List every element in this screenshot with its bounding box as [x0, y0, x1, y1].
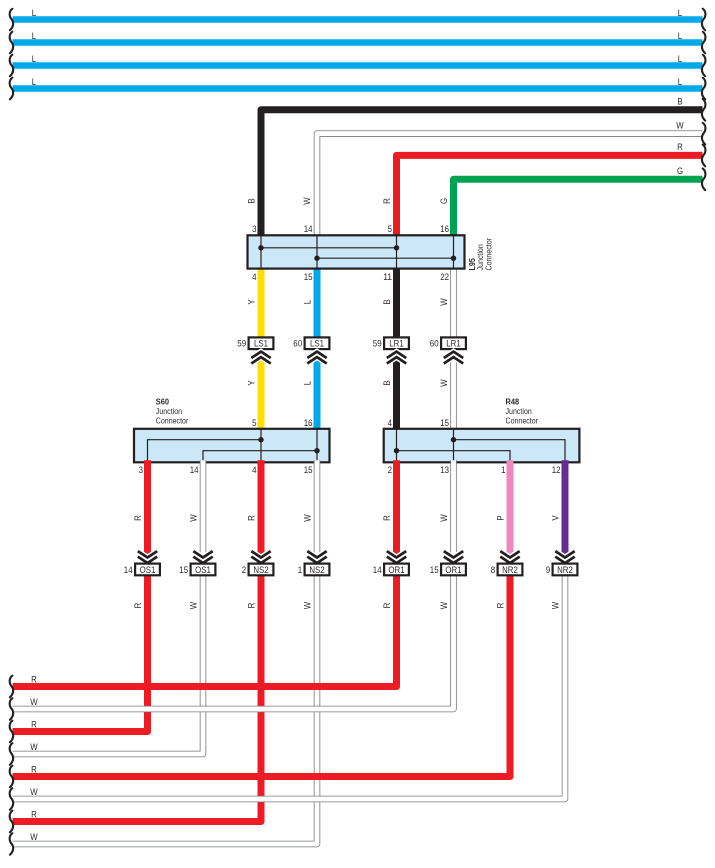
svg-text:1: 1: [501, 465, 505, 476]
down arrows above 2 NS2: [251, 551, 270, 563]
connector LS1 pin 59 label box: [249, 337, 274, 349]
svg-text:NR2: NR2: [557, 565, 573, 576]
svg-text:W: W: [439, 601, 450, 609]
wire L4 (blue horizontal): [13, 85, 703, 92]
svg-text:L: L: [678, 54, 683, 65]
svg-text:L: L: [32, 54, 37, 65]
up arrows below 59 LR1: [387, 352, 406, 364]
wire B (black) from right edge down to L95 pin 3: [261, 110, 703, 238]
svg-text:W: W: [188, 601, 199, 609]
svg-text:59: 59: [373, 339, 382, 350]
svg-text:L: L: [678, 77, 683, 88]
junction connector R48 box: [384, 429, 580, 463]
svg-text:3: 3: [252, 224, 256, 235]
svg-text:R: R: [133, 515, 144, 521]
connector NR2 pin 8 label box: [498, 564, 523, 576]
break symbol left of L4: [10, 78, 14, 100]
S60 internal path pin 16-15: [316, 429, 318, 463]
wire R from x=510 down to horizontal row y=776.5: [13, 573, 510, 776]
S60 internal busbar to pin 14: [203, 451, 317, 463]
svg-text:L: L: [302, 380, 313, 385]
svg-text:NR2: NR2: [502, 565, 518, 576]
svg-text:L: L: [678, 31, 683, 42]
svg-text:W: W: [188, 514, 199, 522]
svg-text:W: W: [439, 298, 450, 306]
wire V (violet) R48 pin 12 to connector NR2: [562, 460, 569, 565]
svg-text:14: 14: [304, 224, 313, 235]
svg-text:OS1: OS1: [140, 565, 156, 576]
break symbol right of wire W: [702, 123, 706, 145]
connector LR1 pin 60 label box: [441, 337, 466, 349]
svg-text:LR1: LR1: [389, 339, 403, 350]
svg-text:14: 14: [190, 465, 199, 476]
break symbol right of wire B: [702, 99, 706, 121]
svg-text:2: 2: [388, 465, 392, 476]
svg-text:11: 11: [383, 272, 392, 283]
wire W (white) L95 pin 22 to R48 pin 15: [450, 267, 457, 431]
L95 internal path pin 5/11: [396, 235, 398, 268]
svg-text:B: B: [247, 198, 258, 203]
svg-text:60: 60: [293, 339, 302, 350]
svg-text:5: 5: [388, 224, 392, 235]
svg-text:16: 16: [304, 418, 313, 429]
svg-text:W: W: [30, 697, 38, 708]
svg-text:R: R: [382, 515, 393, 521]
svg-text:15: 15: [179, 565, 188, 576]
svg-text:LS1: LS1: [254, 339, 268, 350]
svg-text:W: W: [30, 742, 38, 753]
wire L2 (blue horizontal): [13, 39, 703, 46]
L95 internal busbar 2 (pins 14-22): [317, 257, 454, 259]
L95 internal path pin 14/15: [316, 235, 318, 268]
svg-text:R: R: [31, 675, 37, 686]
junction dot: [451, 256, 456, 261]
svg-text:L: L: [302, 299, 313, 304]
svg-text:L: L: [678, 8, 683, 19]
svg-text:OR1: OR1: [445, 565, 461, 576]
wire W from x=565 down to horizontal row y=799: [13, 573, 565, 799]
svg-text:W: W: [30, 832, 38, 843]
break symbol left of bottom row 4: [10, 743, 14, 765]
up arrows below 60 LR1: [444, 352, 463, 364]
down arrows above 9 NR2: [555, 551, 574, 563]
svg-text:2: 2: [242, 565, 246, 576]
break symbol left of bottom row 5: [10, 766, 14, 788]
wire R from x=261 down to horizontal row y=821.5: [13, 460, 261, 821]
svg-text:14: 14: [124, 565, 133, 576]
R48 internal busbar to pin 12: [454, 440, 566, 463]
svg-text:LS1: LS1: [310, 339, 324, 350]
break symbol left of bottom row 3: [10, 721, 14, 743]
wire L (blue) L95 pin 15 to S60 pin 16: [314, 267, 321, 431]
wire R (red) from right edge down to L95 pin 5: [397, 155, 703, 237]
break symbol left of bottom row 7: [10, 811, 14, 833]
wire L3 (blue horizontal): [13, 62, 703, 69]
svg-text:4: 4: [388, 418, 393, 429]
svg-text:R: R: [31, 720, 37, 731]
break symbol left of L3: [10, 55, 14, 77]
svg-text:4: 4: [252, 272, 257, 283]
wire W from x=453.5 down to horizontal row y=709: [13, 460, 454, 709]
svg-text:Connector: Connector: [484, 238, 494, 271]
junction connector L95 box: [248, 235, 465, 268]
svg-text:15: 15: [440, 418, 449, 429]
R48 internal path pin 4-2: [396, 429, 398, 463]
break symbol left of bottom row 2: [10, 698, 14, 720]
S60 internal busbar to pin 3: [148, 440, 262, 463]
svg-text:G: G: [677, 166, 683, 177]
svg-text:12: 12: [552, 465, 561, 476]
svg-text:R: R: [382, 198, 393, 204]
svg-text:V: V: [550, 515, 561, 521]
connector OS1 pin 15 label box: [191, 564, 216, 576]
break symbol left of bottom row 8: [10, 833, 14, 855]
svg-text:R: R: [677, 142, 683, 153]
svg-text:16: 16: [440, 224, 449, 235]
L95 internal path pin 3/4: [260, 235, 262, 268]
wire P (pink) R48 pin 1 to connector NR2: [507, 460, 514, 565]
svg-text:59: 59: [237, 339, 246, 350]
svg-text:NS2: NS2: [253, 565, 268, 576]
svg-text:L: L: [32, 8, 37, 19]
svg-text:R: R: [246, 603, 257, 609]
svg-text:W: W: [676, 120, 684, 131]
down arrows above 15 OS1: [193, 551, 212, 563]
svg-text:W: W: [439, 514, 450, 522]
wire W (white) from right edge down to L95 pin 14: [317, 134, 703, 238]
connector LS1 pin 60 label box: [305, 337, 330, 349]
svg-text:OS1: OS1: [195, 565, 211, 576]
break symbol right of wire G: [702, 169, 706, 191]
svg-text:NS2: NS2: [309, 565, 324, 576]
connector NS2 pin 1 label box: [305, 564, 330, 576]
S60 internal path pin 5-4: [260, 429, 262, 463]
svg-text:3: 3: [139, 465, 143, 476]
svg-text:OR1: OR1: [388, 565, 404, 576]
break symbol right of L1: [702, 9, 706, 31]
svg-text:W: W: [439, 379, 450, 387]
svg-text:22: 22: [440, 272, 449, 283]
svg-text:R: R: [31, 810, 37, 821]
down arrows above 15 OR1: [444, 551, 463, 563]
svg-text:B: B: [382, 380, 393, 385]
junction dot: [314, 256, 319, 261]
R48 internal busbar to pin 1: [397, 451, 511, 463]
down arrows above 14 OS1: [138, 551, 157, 563]
connector NS2 pin 2 label box: [249, 564, 274, 576]
down arrows above 1 NS2: [307, 551, 326, 563]
wire W from x=317 down to horizontal row y=844: [13, 460, 317, 844]
wire G (green) from right edge down to L95 pin 16: [454, 179, 703, 237]
svg-text:14: 14: [373, 565, 382, 576]
break symbol right of L2: [702, 32, 706, 54]
wire W from x=203 down to horizontal row y=754: [13, 460, 203, 754]
break symbol left of L1: [10, 9, 14, 31]
svg-text:60: 60: [430, 339, 439, 350]
svg-text:Connector: Connector: [506, 415, 539, 425]
L95 internal busbar 1 (pins 3-11): [261, 247, 397, 249]
svg-text:R: R: [246, 515, 257, 521]
down arrows above 8 NR2: [500, 551, 519, 563]
svg-text:R: R: [31, 765, 37, 776]
svg-text:L: L: [32, 77, 37, 88]
svg-text:5: 5: [252, 418, 256, 429]
break symbol left of bottom row 6: [10, 788, 14, 810]
svg-text:R: R: [495, 603, 506, 609]
svg-text:Connector: Connector: [156, 415, 189, 425]
svg-text:Y: Y: [246, 380, 257, 386]
svg-text:W: W: [30, 787, 38, 798]
svg-text:B: B: [382, 299, 393, 304]
svg-text:L: L: [32, 31, 37, 42]
break symbol left of L2: [10, 32, 14, 54]
svg-text:15: 15: [304, 272, 313, 283]
R48 internal path pin 15-13: [453, 429, 455, 463]
svg-text:15: 15: [430, 565, 439, 576]
svg-text:G: G: [439, 198, 450, 204]
svg-text:1: 1: [298, 565, 302, 576]
connector LR1 pin 59 label box: [384, 337, 409, 349]
wire B (black) L95 pin 11 to R48 pin 4: [393, 267, 400, 431]
junction connector S60 box: [134, 429, 330, 463]
connector OR1 pin 14 label box: [384, 564, 409, 576]
up arrows below 59 LS1: [251, 352, 270, 364]
svg-text:9: 9: [546, 565, 550, 576]
wire R from x=396.5 down to horizontal row y=686.5: [13, 460, 397, 686]
svg-text:W: W: [302, 514, 313, 522]
svg-text:R: R: [382, 603, 393, 609]
break symbol left of bottom row 1: [10, 676, 14, 698]
svg-text:B: B: [677, 97, 682, 108]
break symbol right of L3: [702, 55, 706, 77]
L95 internal path pin 16/22: [453, 235, 455, 268]
junction dot S60 bus2: [314, 448, 319, 453]
svg-text:P: P: [495, 515, 506, 520]
junction dot R48 bus1: [451, 437, 456, 442]
svg-text:13: 13: [440, 465, 449, 476]
junction dot: [258, 245, 263, 250]
svg-text:Y: Y: [246, 299, 257, 305]
junction dot S60 bus1: [258, 437, 263, 442]
svg-text:8: 8: [491, 565, 495, 576]
break symbol right of wire R: [702, 145, 706, 167]
down arrows above 14 OR1: [387, 551, 406, 563]
svg-text:R: R: [133, 603, 144, 609]
wire Y (yellow) L95 pin 4 to S60 pin 5: [258, 267, 265, 431]
up arrows below 60 LS1: [307, 352, 326, 364]
break symbol right of L4: [702, 78, 706, 100]
connector NR2 pin 9 label box: [553, 564, 578, 576]
svg-text:4: 4: [252, 465, 257, 476]
wire R from x=147.5 down to horizontal row y=731.5: [13, 460, 148, 731]
svg-text:15: 15: [304, 465, 313, 476]
junction dot: [394, 245, 399, 250]
svg-text:W: W: [302, 601, 313, 609]
svg-text:W: W: [550, 601, 561, 609]
connector OS1 pin 14 label box: [135, 564, 160, 576]
wire L1 (blue horizontal): [13, 16, 703, 23]
svg-text:LR1: LR1: [446, 339, 460, 350]
connector OR1 pin 15 label box: [441, 564, 466, 576]
svg-text:W: W: [302, 197, 313, 205]
junction dot R48 bus2: [394, 448, 399, 453]
